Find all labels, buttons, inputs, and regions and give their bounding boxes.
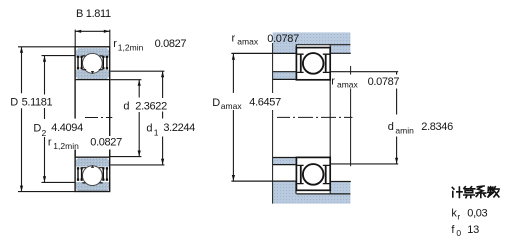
ball upper (right drawing) <box>303 53 324 74</box>
svg-text:amax: amax <box>337 79 359 89</box>
dimension Damax: line <box>232 54 234 181</box>
housing bottom band (blue) <box>273 181 351 203</box>
svg-text:0.0827: 0.0827 <box>90 136 122 148</box>
outer ring race lines lower <box>297 183 329 185</box>
dimension d1: extension lines <box>111 71 165 165</box>
dimension damin: extension bottom <box>331 163 399 165</box>
dimension damin: arrows <box>395 72 398 78</box>
dimension damin: extension top <box>331 71 399 73</box>
char suan <box>464 187 475 198</box>
seals lower (right drawing) <box>301 166 326 183</box>
text mask rects <box>74 119 77 136</box>
svg-text:d: d <box>388 121 394 133</box>
svg-text:1.811: 1.811 <box>86 8 111 20</box>
housing shoulder top lower right (Da level) <box>331 181 351 183</box>
inner ring upper band (blue) <box>76 70 109 79</box>
svg-text:r: r <box>113 38 117 50</box>
svg-text:0.0787: 0.0787 <box>267 33 299 45</box>
housing bore line upper <box>296 44 350 46</box>
bearing outline rectangle <box>75 47 110 192</box>
dimension B: arrows <box>75 30 81 33</box>
dimension d: line <box>138 80 140 157</box>
svg-text:amax: amax <box>237 37 259 47</box>
ball lower <box>83 166 103 186</box>
centerline right drawing <box>277 116 353 118</box>
svg-text:d: d <box>146 122 152 134</box>
svg-text:2.3622: 2.3622 <box>135 101 167 113</box>
svg-text:0: 0 <box>456 228 461 238</box>
seal left lower <box>78 167 82 180</box>
svg-text:amax: amax <box>221 101 243 111</box>
svg-text:2: 2 <box>42 128 47 138</box>
bearing right face line <box>329 44 331 194</box>
dimension d1: line <box>162 71 164 165</box>
shaft upper shoulder (blue) <box>273 72 296 79</box>
r12 leader ticks lower <box>75 150 110 157</box>
abutment face master line <box>272 43 274 204</box>
dimension Damax: extension top <box>231 52 295 54</box>
dimension B: extension lines <box>75 30 110 47</box>
housing bore line lower <box>296 193 350 195</box>
centerline left drawing <box>85 117 112 119</box>
svg-text:5.1181: 5.1181 <box>22 97 53 109</box>
dimension d: arrows <box>138 80 141 86</box>
svg-text:r: r <box>331 75 335 87</box>
land line segments upper <box>82 56 102 70</box>
svg-text:d: d <box>123 101 129 113</box>
svg-text:4.6457: 4.6457 <box>249 97 281 109</box>
housing shoulder face upper <box>295 44 297 53</box>
dimension D2: line <box>44 56 46 183</box>
svg-text:1,2min: 1,2min <box>53 141 79 151</box>
svg-text:D: D <box>33 123 41 135</box>
svg-text:0.0787: 0.0787 <box>368 76 400 88</box>
dimension D2: extension lines <box>42 56 76 183</box>
bore face line upper <box>75 79 110 81</box>
svg-text:4.4094: 4.4094 <box>51 122 83 134</box>
bore face line lower <box>75 156 110 158</box>
ball upper <box>83 53 103 73</box>
raceway V notch upper <box>91 71 94 74</box>
housing lower right shoulder (blue) <box>331 182 351 194</box>
svg-text:13: 13 <box>467 224 479 236</box>
seals upper (right drawing) <box>301 55 326 72</box>
land line segments lower <box>82 168 102 183</box>
shaft shoulder bottom line upper <box>273 78 296 80</box>
inner ring lower band (blue) <box>76 158 109 167</box>
svg-text:3.2244: 3.2244 <box>163 122 195 134</box>
housing shoulder bottom upper right <box>331 52 351 54</box>
outer ring lower band (blue) <box>76 182 109 191</box>
svg-text:D: D <box>212 97 220 109</box>
svg-text:r: r <box>232 33 236 45</box>
inner ring race lines upper <box>297 71 329 73</box>
char ji <box>452 187 462 198</box>
shaft shoulder bottom line lower (da level) <box>273 164 296 166</box>
outer ring race lines upper <box>297 53 329 55</box>
inner ring race lines lower <box>297 164 329 166</box>
Da side trace line <box>350 66 352 166</box>
dimension D: line <box>21 47 23 192</box>
dimension D: extension lines <box>18 47 75 192</box>
housing upper right shoulder (blue) <box>331 45 351 53</box>
svg-text:B: B <box>76 8 83 20</box>
housing top band (blue) <box>273 32 351 53</box>
svg-text:r: r <box>457 212 460 222</box>
char xi <box>476 186 486 198</box>
seal left upper <box>78 56 82 69</box>
shaft shoulder top line upper <box>273 71 296 73</box>
svg-text:0.0827: 0.0827 <box>155 38 187 50</box>
raceway V notch lower <box>91 165 94 168</box>
char shu <box>488 187 499 197</box>
dimension Damax: arrows <box>232 54 235 60</box>
svg-text:2.8346: 2.8346 <box>421 121 453 133</box>
dimension d1: arrows <box>161 72 164 78</box>
bearing section upper (right drawing) <box>296 48 330 80</box>
dimension B: line <box>75 30 110 32</box>
svg-text:r: r <box>48 136 52 148</box>
svg-text:1: 1 <box>154 127 159 137</box>
bearing section lower (right drawing) <box>296 157 330 190</box>
dimension Damax: extension bottom <box>231 180 295 182</box>
svg-text:0,03: 0,03 <box>467 208 487 220</box>
dimension d: extension lines <box>111 80 142 157</box>
dimension damin: line <box>396 72 398 164</box>
title calculation factors (hand-drawn CJK) <box>452 186 499 198</box>
housing shoulder face lower <box>295 181 297 193</box>
dimension D: arrows <box>20 47 23 53</box>
outer ring upper band (blue) <box>76 48 109 57</box>
svg-text:1,2min: 1,2min <box>118 43 144 53</box>
seal right upper <box>103 56 107 69</box>
svg-text:amin: amin <box>395 125 414 135</box>
seal right lower <box>103 167 107 180</box>
dimension D2: arrows <box>43 56 46 62</box>
shaft shoulder top line lower <box>273 157 296 159</box>
svg-text:D: D <box>10 97 18 109</box>
ball lower (right drawing) <box>303 164 324 185</box>
shaft lower shoulder (blue) <box>273 158 296 165</box>
